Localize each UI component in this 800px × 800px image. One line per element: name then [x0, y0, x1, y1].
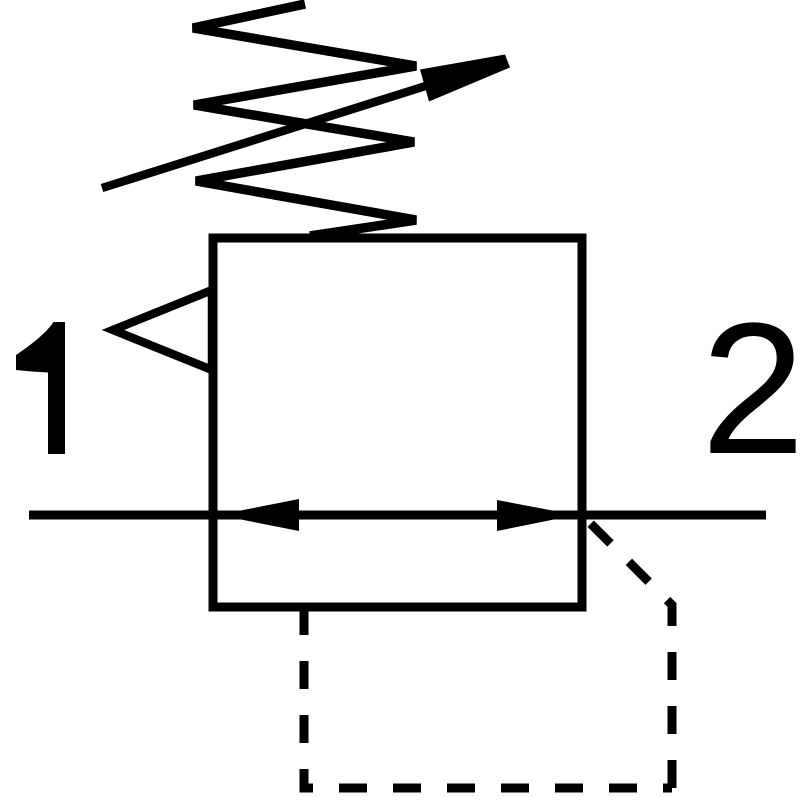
flow line (port 1 to port 2) — [29, 511, 766, 520]
adjustment arrow head — [420, 55, 510, 102]
pilot feedback dashed line (right riser and diagonal to junction) — [582, 515, 672, 788]
flow arrowhead right — [497, 500, 576, 531]
pilot triangle (actuation indicator on box left) — [113, 290, 212, 370]
adjustment arrow shaft — [102, 84, 432, 188]
svg-text:2: 2 — [701, 284, 800, 493]
port label 1 — [16, 322, 65, 454]
regulator body (valve box) — [213, 238, 582, 607]
pilot feedback dashed line (left and bottom run) — [304, 607, 672, 788]
flow arrowhead left — [218, 499, 299, 531]
spring (adjustment spring zigzag) — [193, 4, 416, 236]
